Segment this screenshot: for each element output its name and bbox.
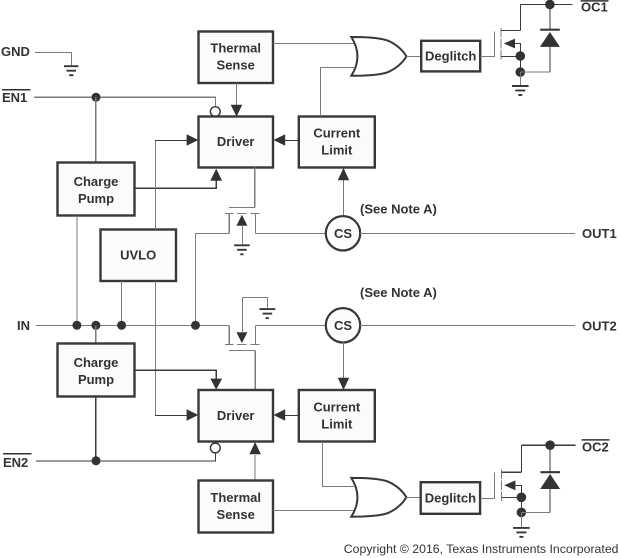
svg-text:OC2: OC2 [582,440,609,455]
node OC1 label [581,0,609,15]
svg-text:IN: IN [17,318,30,333]
wire Charge Pump 2 to Driver 2 [135,370,217,379]
inverter bubble Driver2 enable [210,443,220,453]
wire Charge Pump 2 to EN2 [95,397,97,461]
wire OR1 to Deglitch 1 [406,55,421,57]
svg-text:OC1: OC1 [581,0,608,15]
block Driver 2 [199,390,274,442]
wire Thermal Sense 1 to OR gate 1 [273,43,354,45]
block Charge Pump 2 [58,344,135,397]
wire CS2 to Current Limit 2 [343,342,345,379]
node OC2 label [582,440,610,455]
wire ground node to diode 1 anode [520,71,550,73]
svg-text:CS: CS [334,318,352,333]
node junction IN/ChargePump2 [91,321,100,330]
wire UVLO to Driver 2 [155,281,186,415]
wire UVLO to Driver 1 [155,140,186,229]
wire Thermal Sense 1 to Driver 1 [235,83,237,106]
block Charge Pump 1 [58,163,135,216]
arrow into Driver 1 bottom [210,169,222,181]
wire Charge Pump 1 to Driver 1 [135,181,217,189]
svg-text:Pump: Pump [78,372,114,387]
node source junction 2 [517,493,527,503]
ground (OC2 FET source) [513,528,530,537]
wire Deglitch 1 to OC1 FET gate [481,55,495,57]
svg-text:(See Note A): (See Note A) [360,202,437,217]
transistor pass FET 1 [225,168,259,245]
wire CS1 to Current Limit 1 [343,179,345,215]
svg-text:Driver: Driver [217,134,255,149]
svg-text:CS: CS [334,226,352,241]
wire GND to ground [35,52,71,65]
wire source to ground node [519,56,521,72]
block Deglitch 1 [421,41,480,72]
block Driver 1 [199,117,274,168]
copyright notice [344,542,619,556]
transistor pass FET 2 [225,297,259,390]
wire UVLO to IN [121,281,123,325]
wire IN rail [36,324,229,326]
wire OUT1 [360,232,575,234]
node junction IN/ChargePump1 [72,321,81,330]
svg-text:OUT2: OUT2 [582,318,617,333]
arrow into Current Limit 1 bottom [338,168,349,180]
node GND label [1,44,30,59]
or-gate 1 [351,37,406,76]
diode D2 body diode [540,445,560,512]
svg-text:Pump: Pump [78,191,114,206]
node EN2 label [3,454,32,470]
wire OC1 net top [520,4,572,6]
svg-text:OUT1: OUT1 [582,226,617,241]
wire source to ground node 2 [520,497,522,512]
node junction IN/UVLO [117,321,126,330]
ground (pass FET 1 body) [234,245,250,254]
block Deglitch 2 [421,482,480,514]
transistor OC2 output FET [494,445,521,501]
arrow into Current Limit 2 top [338,378,349,390]
note (See Note A) channel 2 [360,285,437,300]
svg-text:Driver: Driver [217,408,255,423]
block Current Limit 2 [299,390,375,442]
svg-text:GND: GND [1,44,30,59]
wire ground node to diode 2 anode [521,511,550,513]
block UVLO [101,230,177,282]
svg-text:UVLO: UVLO [120,247,156,262]
ground (pass FET 2 body) [260,309,276,318]
wire OUT2 [360,324,575,326]
block Current Limit 1 [299,117,375,168]
svg-text:EN2: EN2 [3,455,28,470]
current sense CS1 [326,216,360,250]
wire EN2 to bubble [36,453,215,461]
wire pass FET 2 body to ground [242,297,267,308]
svg-text:(See Note A): (See Note A) [360,285,437,300]
node ground junction 1 [516,67,526,77]
wire Current Limit 1 to OR gate 1 [320,67,354,116]
current sense CS2 [326,308,360,342]
wire Current Limit 1 to Driver 1 [285,139,299,141]
svg-text:EN1: EN1 [2,90,27,105]
node ground junction 2 [517,508,527,518]
block Thermal Sense 2 [199,481,274,533]
wire OR2 to Deglitch 2 [406,496,420,498]
node EN1 label [2,90,31,105]
wire Charge Pump 1 to IN [76,216,78,326]
wire to ground OC2 [520,512,522,527]
svg-text:Current: Current [313,399,361,414]
inverter bubble Driver1 enable [210,107,220,117]
wire pass FET 2 source to CS2 [255,324,326,326]
node OC1 junction [545,0,555,9]
block Thermal Sense 1 [199,32,274,84]
wire pass FET 1 drain to IN [196,233,230,325]
wire EN1 horizontal [34,97,215,107]
arrow into Driver 1 left [187,134,199,146]
note (See Note A) channel 1 [360,202,437,217]
node source junction 1 [516,51,526,61]
node junction EN2/ChargePump2 [92,456,101,465]
arrow into Driver 1 top [231,105,243,117]
node junction EN1/ChargePump1 [92,93,101,102]
node OUT2 label [582,318,617,333]
svg-text:Sense: Sense [217,507,255,522]
svg-text:Thermal: Thermal [210,490,261,505]
svg-text:Deglitch: Deglitch [425,49,476,64]
node OUT1 label [582,226,617,241]
svg-text:Deglitch: Deglitch [425,491,476,506]
svg-text:Limit: Limit [321,416,353,431]
svg-text:Copyright © 2016, Texas Instru: Copyright © 2016, Texas Instruments Inco… [344,542,619,556]
wire OC2 net top [521,444,575,446]
svg-text:Charge: Charge [74,174,119,189]
ground (GND pin) [64,66,79,75]
wire pass FET 1 source to CS1 [255,232,326,234]
wire IN to Charge Pump 2 [95,325,97,343]
wire Thermal Sense 2 to OR gate 2 [273,509,354,511]
svg-text:Limit: Limit [321,142,353,157]
wire to ground OC1 [519,72,521,85]
arrow into Driver 1 right [274,134,286,146]
arrow into Driver 2 right [274,409,286,421]
ground (OC1 FET source) [512,86,529,95]
svg-text:Sense: Sense [217,58,255,73]
wire Thermal Sense 2 to Driver 2 [254,455,256,481]
transistor OC1 output FET [494,5,520,60]
or-gate 2 [351,478,406,517]
wire Deglitch 2 to OC2 FET gate [481,497,495,499]
node OC2 junction [545,440,555,450]
svg-text:Current: Current [313,125,361,140]
arrow into Driver 2 bottom [249,442,261,454]
wire Current Limit 2 to OR gate 2 [322,442,354,487]
svg-text:Thermal: Thermal [210,41,261,56]
arrow into Driver 2 top [210,379,222,390]
svg-text:Charge: Charge [74,355,119,370]
wire Current Limit 2 to Driver 2 [285,414,299,416]
node junction IN/FET1 drain [191,321,200,330]
wire EN1 to Charge Pump 1 [95,97,97,162]
node IN label [17,318,30,333]
arrow into Driver 2 left [187,409,199,421]
diode D1 body diode [540,5,560,73]
